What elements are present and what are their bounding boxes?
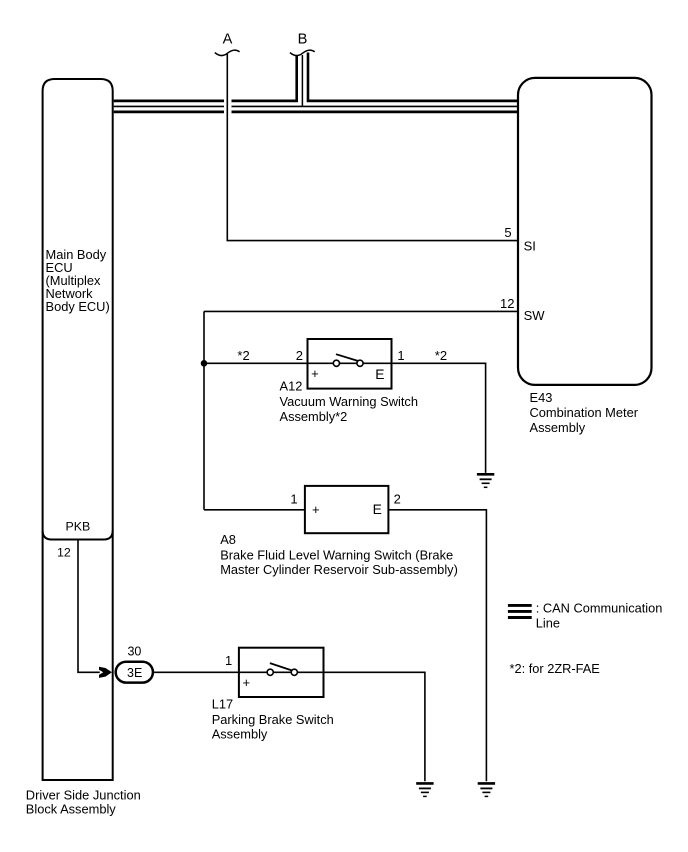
svg-text:Master Cylinder Reservoir Sub-: Master Cylinder Reservoir Sub-assembly) [220, 562, 458, 577]
connector 3E oval [116, 662, 153, 683]
svg-text:Body ECU): Body ECU) [46, 299, 110, 314]
junction block pass-through arrow [99, 667, 112, 678]
wire: CAN bus bottom line [114, 111, 517, 114]
svg-text:+: + [312, 502, 320, 517]
svg-text:Assembly: Assembly [530, 420, 586, 435]
svg-text:SI: SI [524, 238, 536, 253]
wire: CAN bus top line (left of A crossing) [114, 100, 224, 103]
svg-text:E: E [375, 367, 384, 382]
wire: CAN bus top line (A crossing to B branch) [232, 100, 298, 103]
wire: branch B CAN stub (3 lines) [295, 56, 298, 102]
svg-text:Line: Line [536, 616, 560, 631]
svg-text:E43: E43 [530, 390, 553, 405]
svg-text:2: 2 [296, 348, 303, 363]
svg-text:A: A [223, 31, 233, 47]
node A break squiggle [215, 50, 240, 55]
svg-text:Parking Brake Switch: Parking Brake Switch [212, 712, 334, 727]
svg-text:+: + [243, 675, 251, 690]
svg-text:Combination Meter: Combination Meter [530, 405, 639, 420]
svg-text:*2: *2 [237, 348, 249, 363]
wire: CAN bus middle line [114, 105, 517, 107]
ground for A12 [477, 474, 494, 487]
svg-text:12: 12 [57, 545, 71, 559]
svg-text:30: 30 [127, 645, 141, 659]
svg-text:*2: *2 [435, 348, 447, 363]
svg-text:*2: for 2ZR-FAE: *2: for 2ZR-FAE [510, 661, 600, 676]
svg-text:: CAN Communication: : CAN Communication [536, 601, 663, 616]
svg-text:Vacuum Warning Switch: Vacuum Warning Switch [280, 394, 418, 409]
wire: PKB pin down and right to junction block edge [78, 540, 100, 673]
svg-text:Assembly*2: Assembly*2 [280, 409, 348, 424]
switch A12 lever [336, 354, 358, 361]
switch A12: Vacuum Warning Switch Assembly box [308, 339, 392, 389]
wire: SW vertical to A8 pin 1 [204, 509, 305, 511]
ground for L17 [416, 783, 433, 796]
svg-text:Brake Fluid Level Warning Swit: Brake Fluid Level Warning Switch (Brake [220, 547, 453, 562]
svg-text:SW: SW [524, 308, 546, 323]
wire: A12 pin 1 to ground [392, 363, 486, 473]
wire: through L17 [239, 671, 324, 673]
meter E43: Combination Meter Assembly box [518, 78, 652, 385]
svg-text:L17: L17 [212, 697, 233, 712]
wire: through A12 [308, 362, 392, 364]
svg-text:E: E [373, 502, 382, 517]
svg-text:PKB: PKB [66, 519, 91, 533]
svg-text:Assembly: Assembly [212, 727, 268, 742]
svg-text:+: + [311, 366, 319, 381]
switch L17 lever [270, 663, 292, 670]
wire: junction to A12 pin 2 [204, 362, 308, 364]
wire: L17 pin 2 to ground [324, 672, 425, 781]
connector block: Driver Side Junction Block Assembly outline [43, 79, 113, 780]
wire: CAN bus top line (B branch to E43) [307, 100, 517, 103]
wire: 3E oval to L17 [154, 671, 239, 673]
svg-text:B: B [298, 31, 308, 47]
wire: A to E43 SI pin [227, 54, 518, 241]
svg-text:5: 5 [504, 225, 511, 240]
ECU U1: Main Body ECU rounded bottom divider [43, 531, 113, 540]
node B break squiggle [290, 50, 315, 55]
switch A12 contact circles [333, 360, 339, 366]
legend: CAN communication line symbol [508, 605, 532, 617]
svg-text:1: 1 [397, 348, 404, 363]
svg-text:A8: A8 [220, 532, 236, 547]
switch L17: Parking Brake Switch Assembly box [239, 648, 324, 697]
wire: SW net vertical from E43 SW to A8 [203, 311, 205, 509]
switch A8: Brake Fluid Level Warning Switch box [305, 486, 389, 533]
svg-text:2: 2 [394, 491, 401, 506]
svg-text:A12: A12 [280, 378, 303, 393]
node: junction dot SW/A12 [201, 360, 208, 367]
svg-text:3E: 3E [127, 666, 142, 680]
switch L17 contact circles [267, 669, 273, 675]
wire: SW pin of E43 to vertical [204, 310, 518, 312]
svg-text:1: 1 [225, 653, 232, 668]
svg-text:Driver Side Junction: Driver Side Junction [26, 788, 141, 803]
ground for A8 [478, 783, 495, 796]
wire: A8 pin 2 to ground [388, 510, 486, 782]
svg-text:1: 1 [290, 491, 297, 506]
svg-text:Block Assembly: Block Assembly [26, 801, 117, 816]
svg-text:12: 12 [500, 296, 514, 311]
